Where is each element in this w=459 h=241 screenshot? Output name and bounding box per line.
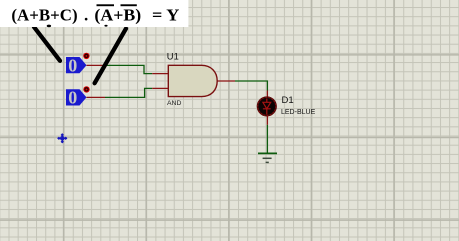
svg-text:D1: D1 [282,95,294,106]
svg-text:AND: AND [167,100,181,107]
svg-text:0: 0 [68,55,77,75]
svg-text:U1: U1 [167,51,179,62]
svg-text:= Y: = Y [152,6,179,25]
svg-text:0: 0 [68,88,77,108]
svg-text:.: . [84,6,88,25]
svg-text:(A+B): (A+B) [94,6,141,25]
svg-text:LED-BLUE: LED-BLUE [281,109,316,116]
svg-text:(A+B+C): (A+B+C) [11,6,77,25]
